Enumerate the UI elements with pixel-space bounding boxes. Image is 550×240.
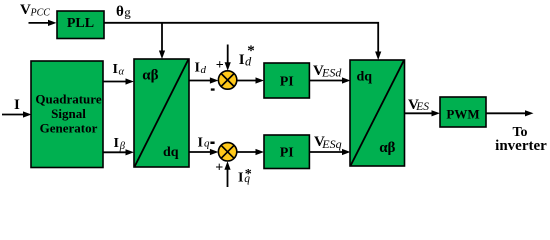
node minus sign at lower summing junction bbox=[210, 142, 214, 145]
svg-text:Quadrature: Quadrature bbox=[35, 92, 101, 107]
svg-text:αβ: αβ bbox=[142, 68, 158, 84]
wire PI lower to dq/alpha-beta block bbox=[309, 149, 350, 155]
node V-ES label bbox=[408, 97, 429, 113]
svg-text:Signal: Signal bbox=[51, 106, 86, 121]
wire theta-g from PLL to dq block (top run) bbox=[104, 23, 381, 60]
svg-text:αβ: αβ bbox=[379, 140, 395, 156]
svg-text:d: d bbox=[201, 64, 207, 76]
wire V-ES to PWM bbox=[404, 110, 440, 116]
wire upper summing junction to PI bbox=[237, 77, 264, 83]
svg-text:I: I bbox=[238, 171, 243, 186]
svg-text:inverter: inverter bbox=[495, 138, 547, 154]
svg-text:I: I bbox=[114, 136, 119, 151]
wire Iq to summing junction bbox=[189, 149, 218, 155]
wire I-alpha arrow bbox=[103, 78, 134, 84]
svg-text:I: I bbox=[195, 60, 200, 75]
svg-text:q: q bbox=[204, 138, 210, 150]
wire PI upper to dq/alpha-beta block bbox=[309, 77, 350, 83]
node To inverter label bbox=[495, 125, 547, 154]
node Id-star reference label bbox=[239, 43, 255, 69]
node I-beta label bbox=[114, 136, 126, 152]
block Quadrature Signal Generator bbox=[31, 61, 103, 168]
svg-text:V: V bbox=[20, 2, 31, 18]
svg-text:PWM: PWM bbox=[446, 107, 479, 122]
svg-text:ESd: ESd bbox=[321, 65, 342, 79]
svg-text:Generator: Generator bbox=[40, 121, 98, 136]
node Id label bbox=[195, 60, 207, 76]
svg-text:ES: ES bbox=[415, 101, 429, 113]
svg-text:*: * bbox=[245, 167, 252, 182]
svg-text:PI: PI bbox=[280, 75, 294, 90]
svg-text:α: α bbox=[119, 67, 125, 78]
wire I input arrow bbox=[2, 111, 32, 117]
svg-text:I: I bbox=[239, 52, 245, 68]
wire PWM output to inverter bbox=[486, 110, 534, 116]
node Iq-star reference label bbox=[238, 167, 252, 186]
wire Iq-star arrow up into summing junction bbox=[224, 161, 230, 187]
node theta-g label bbox=[116, 4, 131, 20]
svg-text:PCC: PCC bbox=[30, 8, 51, 19]
node I-alpha label bbox=[113, 62, 125, 78]
svg-text:ESq: ESq bbox=[321, 137, 341, 151]
wire Id-star arrow down into summing junction bbox=[225, 45, 231, 71]
block PLL bbox=[57, 11, 104, 39]
node V-ESq label bbox=[314, 134, 342, 151]
block PI upper bbox=[264, 63, 309, 98]
svg-text:dq: dq bbox=[357, 70, 373, 85]
svg-text:+: + bbox=[216, 58, 224, 73]
svg-text:PI: PI bbox=[280, 146, 294, 161]
node Vpcc input label bbox=[20, 2, 50, 19]
block PWM bbox=[440, 97, 486, 127]
wire Id to summing junction bbox=[189, 77, 218, 83]
node minus sign at upper summing junction bbox=[211, 88, 215, 90]
wire I-beta arrow bbox=[103, 149, 134, 155]
svg-text:PLL: PLL bbox=[67, 16, 94, 31]
svg-text:I: I bbox=[113, 62, 118, 77]
block PI lower bbox=[264, 135, 309, 169]
svg-text:dq: dq bbox=[163, 145, 179, 160]
summing junction upper (Id) bbox=[218, 71, 236, 89]
summing junction lower (Iq) bbox=[218, 143, 236, 161]
svg-text:β: β bbox=[119, 141, 126, 152]
node V-ESd label bbox=[313, 63, 342, 79]
wire Vpcc input arrow bbox=[29, 20, 57, 26]
svg-text:+: + bbox=[215, 160, 223, 175]
svg-text:I: I bbox=[198, 135, 203, 150]
wire theta-g branch down to alpha-beta/dq block bbox=[159, 23, 165, 59]
svg-text:g: g bbox=[124, 5, 131, 20]
svg-text:I: I bbox=[14, 97, 20, 113]
block dq to alpha-beta transform bbox=[350, 60, 405, 166]
block alpha-beta to dq transform bbox=[134, 59, 189, 167]
node Iq label bbox=[198, 135, 211, 150]
svg-text:θ: θ bbox=[116, 4, 124, 20]
wire lower summing junction to PI bbox=[237, 149, 264, 155]
svg-text:*: * bbox=[247, 43, 255, 59]
